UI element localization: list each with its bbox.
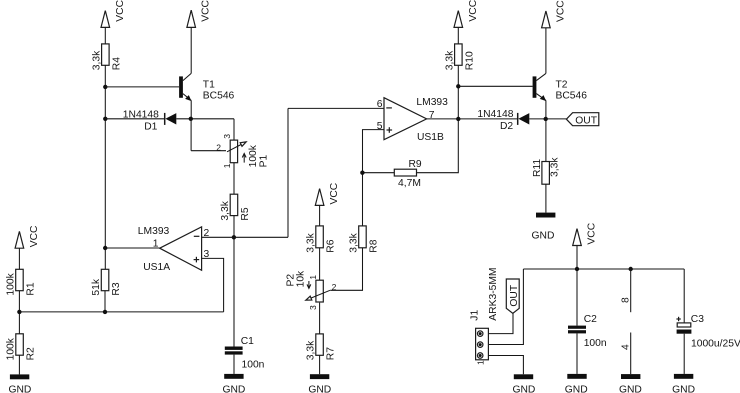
svg-text:3,3k: 3,3k — [349, 232, 360, 252]
svg-text:1000u/25V: 1000u/25V — [691, 338, 740, 349]
svg-text:100k: 100k — [248, 144, 259, 167]
wire bottom rail — [19, 311, 223, 313]
ground under J1 — [512, 374, 535, 393]
svg-text:VCC: VCC — [587, 222, 598, 244]
svg-text:R1: R1 — [25, 282, 36, 295]
svg-text:3: 3 — [222, 134, 232, 139]
potentiometer P1 — [216, 134, 269, 168]
node — [103, 85, 107, 89]
svg-text:GND: GND — [672, 384, 695, 393]
svg-text:C2: C2 — [584, 314, 597, 325]
ground under C2 — [565, 374, 588, 393]
VCC symbol above R10 — [454, 0, 479, 27]
wire J1 pin bottom — [488, 356, 523, 375]
resistor R4 — [91, 44, 122, 70]
svg-text:3,3k: 3,3k — [306, 232, 317, 252]
svg-text:R9: R9 — [409, 159, 422, 170]
resistor R11 — [532, 157, 561, 185]
svg-text:R11: R11 — [532, 159, 543, 177]
wire pin2 rail — [202, 236, 288, 238]
transistor T1 — [179, 73, 234, 101]
node — [189, 117, 193, 121]
svg-text:51k: 51k — [91, 278, 102, 295]
wire — [233, 163, 235, 195]
svg-text:R3: R3 — [111, 282, 122, 295]
node — [456, 117, 460, 121]
svg-text:OUT: OUT — [509, 284, 520, 306]
wire T2 base — [458, 85, 532, 87]
wire — [458, 118, 517, 120]
wire — [319, 205, 321, 226]
svg-text:1N4148: 1N4148 — [477, 109, 513, 120]
resistor R1 — [6, 269, 37, 295]
svg-text:BC546: BC546 — [203, 90, 235, 101]
svg-text:R4: R4 — [111, 57, 122, 70]
svg-text:GND: GND — [532, 231, 555, 242]
wire J1 pin top — [488, 313, 513, 333]
svg-text:VCC: VCC — [29, 225, 40, 247]
svg-text:R7: R7 — [326, 347, 337, 360]
svg-text:1N4148: 1N4148 — [123, 109, 159, 120]
capacitor C2 — [568, 314, 607, 349]
wire pin1 — [105, 247, 160, 249]
resistor R7 — [306, 334, 337, 360]
VCC symbol above T2 — [542, 0, 567, 28]
wire — [105, 118, 164, 120]
wire — [18, 291, 20, 334]
transistor T2 — [533, 73, 588, 101]
capacitor C1 — [225, 336, 265, 371]
node — [232, 235, 236, 239]
node — [103, 117, 107, 121]
svg-text:GND: GND — [308, 384, 331, 393]
svg-text:3,3k: 3,3k — [91, 50, 102, 70]
svg-text:2: 2 — [332, 282, 337, 292]
wire pin3 — [202, 258, 224, 312]
flag OUT right — [566, 113, 598, 127]
wire — [330, 248, 362, 290]
potentiometer P2 — [286, 270, 337, 310]
wire — [319, 248, 321, 281]
wire — [417, 65, 459, 172]
wire — [319, 303, 321, 334]
svg-text:BC546: BC546 — [556, 91, 588, 102]
node — [456, 84, 460, 88]
svg-text:GND: GND — [512, 384, 535, 393]
resistor R10 — [444, 44, 475, 70]
svg-text:8: 8 — [621, 297, 632, 303]
wire — [457, 27, 459, 44]
svg-text:C1: C1 — [241, 336, 254, 347]
wire — [190, 100, 192, 118]
node — [629, 267, 633, 271]
VCC symbol above R1 — [15, 225, 40, 248]
capacitor C3 — [676, 314, 740, 349]
wire — [176, 118, 234, 120]
svg-text:6: 6 — [377, 99, 383, 110]
pin 8 stub — [621, 269, 632, 312]
svg-text:3,3k: 3,3k — [550, 157, 561, 177]
resistor R5 — [220, 194, 251, 220]
svg-text:3: 3 — [308, 305, 318, 310]
resistor R3 — [91, 269, 122, 295]
resistor R9 — [394, 159, 422, 189]
wire — [363, 172, 395, 174]
wire — [488, 269, 523, 345]
svg-text:J1: J1 — [469, 310, 480, 321]
svg-text:US1A: US1A — [143, 262, 170, 273]
op-amp US1B — [377, 97, 448, 143]
svg-text:2: 2 — [216, 142, 221, 152]
wire — [18, 248, 20, 269]
svg-text:GND: GND — [565, 384, 588, 393]
diode D2 — [477, 109, 529, 132]
ground under C3 — [672, 374, 695, 393]
svg-text:VCC: VCC — [115, 0, 126, 22]
wire pin7 — [427, 118, 459, 120]
wire VCC bus — [523, 268, 684, 270]
svg-text:D1: D1 — [144, 122, 157, 133]
svg-text:3,3k: 3,3k — [306, 340, 317, 360]
flag OUT down — [506, 279, 520, 313]
node — [103, 310, 107, 314]
svg-text:3,3k: 3,3k — [444, 50, 455, 70]
svg-text:T1: T1 — [203, 80, 215, 91]
wire — [576, 333, 578, 374]
svg-text:100n: 100n — [242, 359, 265, 370]
wire vertical col D — [287, 108, 289, 237]
svg-text:GND: GND — [8, 384, 31, 393]
svg-text:100k: 100k — [6, 272, 17, 295]
svg-text:4,7M: 4,7M — [398, 178, 421, 189]
svg-text:VCC: VCC — [329, 182, 340, 204]
pin 4 stub — [621, 333, 632, 375]
wire — [233, 216, 235, 347]
svg-text:100n: 100n — [584, 338, 607, 349]
resistor R6 — [306, 226, 337, 253]
svg-text:1: 1 — [222, 163, 232, 168]
ground under R7 — [308, 374, 331, 393]
svg-text:R5: R5 — [240, 207, 251, 220]
op-amp US1A — [138, 226, 210, 273]
svg-text:T2: T2 — [556, 79, 568, 90]
resistor R2 — [6, 334, 37, 361]
wire — [190, 119, 192, 151]
VCC symbol above T1 — [187, 0, 212, 27]
wire pin5 — [363, 130, 385, 226]
ground under R2 — [8, 374, 31, 393]
VCC symbol above R6 — [315, 182, 340, 205]
svg-text:US1B: US1B — [417, 132, 444, 143]
ground under pin 4 — [619, 374, 642, 393]
svg-text:GND: GND — [619, 384, 642, 393]
svg-text:VCC: VCC — [201, 0, 212, 22]
wire — [104, 291, 106, 312]
wire pin6 — [288, 107, 384, 109]
node — [360, 171, 364, 175]
wire — [683, 334, 685, 374]
svg-text:R2: R2 — [26, 347, 37, 360]
wire — [104, 27, 106, 44]
resistor R8 — [349, 226, 380, 253]
node — [544, 117, 548, 121]
wire — [545, 100, 547, 161]
wire — [683, 269, 685, 323]
svg-text:D2: D2 — [500, 121, 513, 132]
svg-text:GND: GND — [222, 384, 245, 393]
svg-text:VCC: VCC — [555, 0, 566, 22]
svg-text:ARK3-5MM: ARK3-5MM — [488, 267, 499, 320]
svg-text:3,3k: 3,3k — [220, 200, 231, 220]
wire — [545, 28, 547, 74]
svg-text:P1: P1 — [259, 155, 270, 168]
svg-text:C3: C3 — [691, 314, 704, 325]
ground under C1 — [222, 374, 245, 393]
svg-text:5: 5 — [377, 121, 383, 132]
svg-text:4: 4 — [621, 344, 632, 350]
svg-text:VCC: VCC — [468, 0, 479, 22]
svg-text:R8: R8 — [368, 239, 379, 252]
svg-text:1: 1 — [308, 275, 318, 280]
wire — [319, 355, 321, 374]
wire — [576, 246, 578, 326]
svg-text:10k: 10k — [295, 270, 306, 287]
wire — [545, 184, 547, 212]
wire — [18, 355, 20, 374]
svg-text:LM393: LM393 — [416, 97, 448, 108]
wire — [233, 355, 235, 374]
svg-text:R6: R6 — [326, 239, 337, 252]
svg-text:100k: 100k — [6, 337, 17, 360]
connector J1 — [469, 267, 499, 365]
ground under R11 — [532, 213, 556, 242]
VCC symbol above R4 — [101, 0, 126, 27]
node — [17, 310, 21, 314]
svg-text:1: 1 — [476, 360, 486, 365]
wire — [529, 118, 566, 120]
node — [575, 267, 579, 271]
node — [103, 246, 107, 250]
wire — [233, 119, 235, 140]
VCC symbol power section — [573, 222, 598, 245]
wire — [190, 27, 192, 73]
svg-text:R10: R10 — [464, 51, 475, 70]
wire — [104, 65, 106, 269]
wire — [105, 86, 179, 88]
diode D1 — [123, 109, 177, 132]
wire — [191, 150, 226, 152]
svg-text:OUT: OUT — [575, 115, 597, 126]
svg-text:LM393: LM393 — [138, 226, 170, 237]
